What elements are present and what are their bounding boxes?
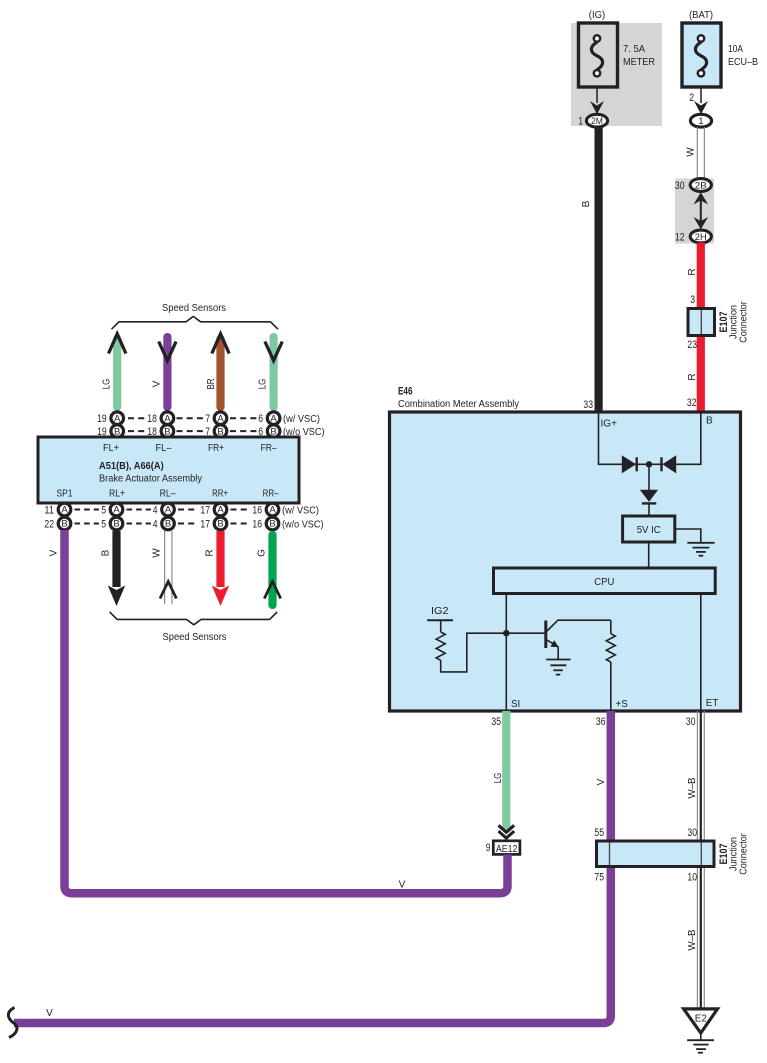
svg-text:12: 12: [675, 232, 685, 244]
svg-text:30: 30: [686, 716, 696, 728]
svg-text:2M: 2M: [591, 116, 603, 126]
svg-text:A: A: [217, 505, 224, 516]
svg-text:5: 5: [101, 504, 106, 516]
svg-text:RR+: RR+: [212, 489, 228, 500]
svg-text:E46: E46: [398, 386, 413, 398]
svg-text:RR–: RR–: [263, 489, 279, 500]
svg-text:5V IC: 5V IC: [637, 525, 661, 536]
svg-text:10A: 10A: [728, 43, 743, 55]
svg-text:R: R: [687, 373, 698, 380]
svg-text:RL–: RL–: [160, 489, 176, 500]
svg-text:2: 2: [689, 92, 694, 104]
svg-text:FR+: FR+: [208, 443, 224, 454]
svg-text:19: 19: [97, 413, 107, 425]
svg-text:7. 5A: 7. 5A: [623, 43, 645, 55]
svg-text:2H: 2H: [695, 232, 707, 242]
svg-text:10: 10: [687, 872, 697, 884]
svg-text:AE12: AE12: [496, 844, 518, 855]
svg-text:FR–: FR–: [261, 443, 277, 454]
svg-text:(BAT): (BAT): [689, 9, 713, 21]
svg-text:B: B: [113, 519, 119, 530]
svg-text:B: B: [101, 549, 112, 556]
svg-text:FL+: FL+: [103, 443, 119, 454]
svg-text:18: 18: [147, 413, 157, 425]
svg-text:A: A: [61, 505, 68, 516]
svg-text:A: A: [269, 505, 276, 516]
svg-text:V: V: [49, 549, 60, 556]
svg-text:Connector: Connector: [739, 301, 750, 343]
svg-text:IG2: IG2: [431, 606, 449, 617]
svg-text:SP1: SP1: [57, 489, 73, 500]
svg-text:36: 36: [596, 716, 606, 728]
svg-text:4: 4: [153, 504, 158, 516]
svg-text:32: 32: [687, 397, 697, 409]
svg-text:35: 35: [491, 716, 501, 728]
svg-text:(IG): (IG): [589, 9, 606, 21]
svg-text:R: R: [687, 268, 698, 275]
svg-text:(w/o VSC): (w/o VSC): [282, 519, 324, 530]
svg-text:30: 30: [675, 180, 685, 192]
svg-text:3: 3: [690, 294, 695, 306]
svg-text:Combination Meter Assembly: Combination Meter Assembly: [398, 399, 519, 410]
svg-text:E2: E2: [695, 1014, 707, 1025]
svg-text:2B: 2B: [695, 180, 707, 190]
svg-text:7: 7: [205, 413, 210, 425]
svg-text:16: 16: [252, 518, 262, 530]
svg-text:A51(B), A66(A): A51(B), A66(A): [99, 461, 164, 472]
svg-text:30: 30: [687, 827, 697, 839]
svg-text:+S: +S: [616, 699, 629, 710]
svg-text:23: 23: [687, 339, 697, 351]
svg-text:B: B: [61, 519, 67, 530]
svg-text:A: A: [270, 413, 277, 424]
svg-text:A: A: [114, 413, 121, 424]
svg-text:BR: BR: [206, 379, 217, 390]
svg-text:IG+: IG+: [601, 419, 618, 430]
svg-text:9: 9: [486, 842, 491, 854]
svg-text:B: B: [165, 519, 171, 530]
svg-text:V: V: [399, 880, 406, 891]
svg-text:V: V: [152, 380, 163, 387]
svg-text:Speed Sensors: Speed Sensors: [163, 632, 227, 643]
svg-text:LG: LG: [493, 773, 504, 784]
svg-text:Brake Actuator Assembly: Brake Actuator Assembly: [99, 474, 202, 485]
svg-text:B: B: [269, 519, 275, 530]
svg-text:W: W: [152, 548, 163, 558]
svg-text:R: R: [205, 549, 216, 556]
svg-text:ET: ET: [706, 698, 719, 709]
svg-text:A: A: [165, 505, 172, 516]
svg-text:1: 1: [578, 116, 583, 128]
svg-text:METER: METER: [623, 56, 655, 68]
svg-text:33: 33: [583, 399, 593, 411]
svg-text:W–B: W–B: [687, 929, 698, 950]
svg-text:LG: LG: [101, 379, 112, 390]
svg-text:W: W: [686, 147, 697, 157]
svg-text:SI: SI: [511, 699, 520, 710]
svg-text:17: 17: [200, 518, 210, 530]
svg-text:B: B: [217, 519, 223, 530]
svg-text:W–B: W–B: [687, 777, 698, 798]
svg-text:LG: LG: [258, 379, 269, 390]
svg-text:75: 75: [594, 872, 604, 884]
svg-text:6: 6: [258, 413, 263, 425]
svg-text:4: 4: [153, 518, 158, 530]
svg-text:16: 16: [252, 504, 262, 516]
svg-text:G: G: [257, 549, 268, 557]
svg-text:17: 17: [200, 504, 210, 516]
svg-text:5: 5: [101, 518, 106, 530]
svg-text:RL+: RL+: [109, 489, 125, 500]
svg-text:(w/ VSC): (w/ VSC): [283, 414, 320, 425]
svg-text:Connector: Connector: [739, 833, 750, 875]
svg-text:A: A: [217, 413, 224, 424]
svg-text:(w/ VSC): (w/ VSC): [282, 505, 319, 516]
svg-text:55: 55: [594, 827, 604, 839]
svg-text:ECU–B: ECU–B: [728, 56, 758, 68]
svg-text:FL–: FL–: [156, 443, 173, 454]
svg-text:V: V: [46, 1008, 53, 1019]
svg-text:22: 22: [44, 518, 54, 530]
svg-text:B: B: [706, 416, 713, 427]
svg-text:A: A: [164, 413, 171, 424]
svg-text:V: V: [596, 778, 607, 785]
svg-text:B: B: [581, 200, 592, 207]
svg-text:A: A: [113, 505, 120, 516]
svg-text:11: 11: [44, 504, 54, 516]
svg-text:1: 1: [698, 116, 703, 126]
svg-text:CPU: CPU: [594, 577, 614, 588]
svg-text:Speed Sensors: Speed Sensors: [162, 303, 226, 314]
